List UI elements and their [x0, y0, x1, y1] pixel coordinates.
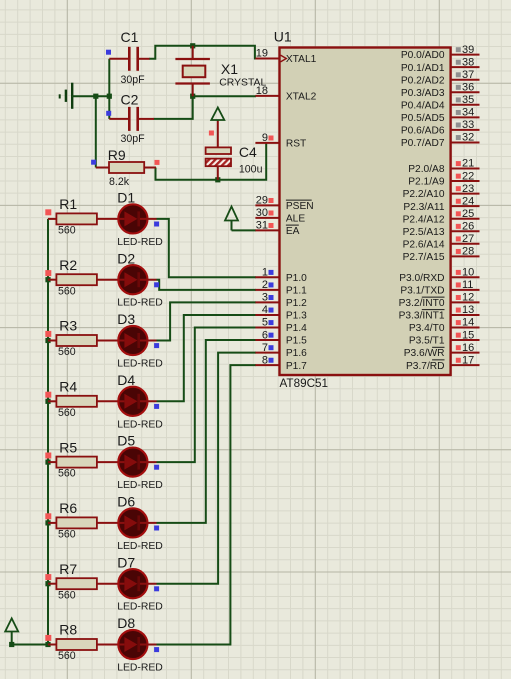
svg-text:33: 33 — [462, 119, 474, 131]
svg-text:P0.3/AD3: P0.3/AD3 — [401, 88, 445, 99]
svg-text:PSEN: PSEN — [286, 201, 314, 212]
svg-text:XTAL1: XTAL1 — [286, 54, 317, 65]
svg-text:19: 19 — [256, 48, 268, 60]
svg-text:D3: D3 — [117, 311, 135, 327]
svg-text:5: 5 — [262, 317, 268, 329]
svg-text:560: 560 — [58, 650, 76, 662]
svg-text:25: 25 — [462, 208, 474, 220]
svg-text:560: 560 — [58, 407, 76, 419]
svg-text:30pF: 30pF — [121, 133, 146, 145]
svg-text:RST: RST — [286, 139, 306, 150]
svg-text:34: 34 — [462, 107, 474, 119]
svg-text:37: 37 — [462, 69, 474, 81]
svg-text:LED-RED: LED-RED — [117, 480, 163, 491]
svg-text:D1: D1 — [117, 190, 135, 206]
svg-text:560: 560 — [58, 529, 76, 541]
svg-text:29: 29 — [256, 195, 268, 207]
svg-text:8.2k: 8.2k — [109, 176, 130, 188]
svg-text:D7: D7 — [117, 554, 135, 570]
svg-text:17: 17 — [462, 354, 474, 366]
svg-text:R4: R4 — [59, 379, 77, 395]
svg-text:D2: D2 — [117, 250, 135, 266]
svg-text:P3.0/RXD: P3.0/RXD — [399, 273, 444, 284]
svg-text:LED-RED: LED-RED — [117, 419, 163, 430]
svg-text:30: 30 — [256, 207, 268, 219]
svg-text:AT89C51: AT89C51 — [280, 377, 329, 390]
svg-text:38: 38 — [462, 56, 474, 68]
svg-text:P2.0/A8: P2.0/A8 — [408, 164, 445, 175]
svg-text:P2.4/A12: P2.4/A12 — [403, 214, 445, 225]
svg-text:35: 35 — [462, 94, 474, 106]
svg-text:C1: C1 — [121, 29, 139, 45]
svg-text:D6: D6 — [117, 494, 135, 510]
svg-text:P2.7/A15: P2.7/A15 — [403, 252, 445, 263]
svg-text:32: 32 — [462, 132, 474, 144]
svg-text:R9: R9 — [108, 147, 126, 163]
svg-text:9: 9 — [262, 132, 268, 144]
svg-text:P0.5/AD5: P0.5/AD5 — [401, 113, 445, 124]
svg-text:P3.5/T1: P3.5/T1 — [409, 336, 445, 347]
svg-text:P2.6/A14: P2.6/A14 — [403, 239, 445, 250]
svg-text:26: 26 — [462, 220, 474, 232]
svg-text:U1: U1 — [274, 29, 292, 45]
svg-text:P0.4/AD4: P0.4/AD4 — [401, 100, 445, 111]
svg-text:X1: X1 — [221, 61, 238, 77]
svg-text:P1.7: P1.7 — [286, 361, 307, 372]
svg-text:P3.6/WR: P3.6/WR — [404, 348, 445, 359]
svg-text:6: 6 — [262, 329, 268, 341]
svg-text:LED-RED: LED-RED — [117, 237, 163, 248]
svg-text:R6: R6 — [59, 500, 77, 516]
svg-text:12: 12 — [462, 292, 474, 304]
svg-text:30pF: 30pF — [121, 74, 146, 86]
svg-text:31: 31 — [256, 220, 268, 232]
svg-text:560: 560 — [58, 285, 76, 297]
svg-text:LED-RED: LED-RED — [117, 663, 163, 674]
svg-text:D8: D8 — [117, 615, 135, 631]
svg-text:P2.5/A13: P2.5/A13 — [403, 227, 445, 238]
svg-text:14: 14 — [462, 317, 474, 329]
svg-text:4: 4 — [262, 304, 268, 316]
svg-text:100u: 100u — [239, 163, 263, 175]
svg-text:P1.6: P1.6 — [286, 348, 307, 359]
svg-text:36: 36 — [462, 81, 474, 93]
svg-text:P3.7/RD: P3.7/RD — [406, 361, 445, 372]
svg-text:13: 13 — [462, 304, 474, 316]
svg-text:P2.1/A9: P2.1/A9 — [408, 177, 445, 188]
svg-text:D5: D5 — [117, 433, 135, 449]
svg-text:P2.2/A10: P2.2/A10 — [403, 189, 445, 200]
svg-text:560: 560 — [58, 346, 76, 358]
svg-text:1: 1 — [262, 267, 268, 279]
svg-text:11: 11 — [462, 279, 473, 291]
svg-text:P3.4/T0: P3.4/T0 — [409, 323, 445, 334]
svg-text:10: 10 — [462, 267, 474, 279]
svg-text:P0.2/AD2: P0.2/AD2 — [401, 75, 445, 86]
svg-text:P3.1/TXD: P3.1/TXD — [400, 285, 444, 296]
svg-text:P1.0: P1.0 — [286, 273, 307, 284]
svg-text:560: 560 — [58, 468, 76, 480]
svg-text:C4: C4 — [239, 144, 257, 160]
svg-text:P1.4: P1.4 — [286, 323, 307, 334]
svg-text:P0.6/AD6: P0.6/AD6 — [401, 126, 445, 137]
svg-text:CRYSTAL: CRYSTAL — [219, 78, 266, 89]
svg-text:P0.7/AD7: P0.7/AD7 — [401, 138, 445, 149]
svg-text:P1.5: P1.5 — [286, 336, 307, 347]
svg-text:39: 39 — [462, 44, 474, 56]
svg-text:R1: R1 — [59, 196, 77, 212]
svg-text:8: 8 — [262, 354, 268, 366]
svg-text:R5: R5 — [59, 439, 77, 455]
svg-text:LED-RED: LED-RED — [117, 602, 163, 613]
svg-text:P3.2/INT0: P3.2/INT0 — [399, 298, 445, 309]
svg-text:3: 3 — [262, 292, 268, 304]
svg-text:R8: R8 — [59, 622, 77, 638]
svg-text:P2.3/A11: P2.3/A11 — [403, 202, 444, 213]
svg-text:P1.3: P1.3 — [286, 311, 307, 322]
svg-text:22: 22 — [462, 170, 474, 182]
svg-text:P1.1: P1.1 — [286, 285, 307, 296]
svg-text:EA: EA — [286, 226, 300, 237]
svg-text:R2: R2 — [59, 257, 77, 273]
svg-text:24: 24 — [462, 195, 474, 207]
svg-text:R7: R7 — [59, 561, 77, 577]
svg-text:560: 560 — [58, 589, 76, 601]
svg-text:P0.1/AD1: P0.1/AD1 — [401, 63, 445, 74]
svg-text:ALE: ALE — [286, 214, 305, 225]
svg-text:P1.2: P1.2 — [286, 298, 307, 309]
svg-text:16: 16 — [462, 342, 474, 354]
svg-text:LED-RED: LED-RED — [117, 541, 163, 552]
svg-text:560: 560 — [58, 225, 76, 237]
svg-text:R3: R3 — [59, 318, 77, 334]
svg-text:15: 15 — [462, 329, 474, 341]
svg-text:21: 21 — [462, 158, 474, 170]
svg-text:23: 23 — [462, 183, 474, 195]
svg-text:2: 2 — [262, 279, 268, 291]
svg-text:28: 28 — [462, 246, 474, 258]
svg-text:C2: C2 — [121, 92, 139, 108]
svg-text:P3.3/INT1: P3.3/INT1 — [399, 311, 445, 322]
svg-text:27: 27 — [462, 233, 474, 245]
svg-text:7: 7 — [262, 342, 268, 354]
svg-text:LED-RED: LED-RED — [117, 359, 163, 370]
svg-text:P0.0/AD0: P0.0/AD0 — [401, 50, 445, 61]
svg-text:XTAL2: XTAL2 — [286, 92, 317, 103]
svg-text:LED-RED: LED-RED — [117, 298, 163, 309]
svg-text:D4: D4 — [117, 372, 135, 388]
